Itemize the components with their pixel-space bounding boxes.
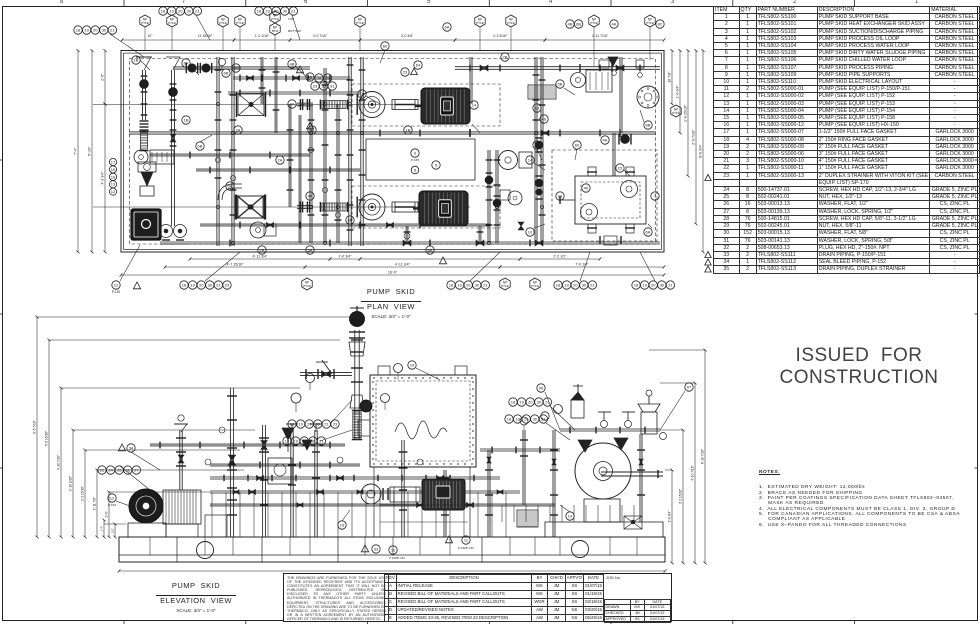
- drop1 globe valve: [141, 75, 148, 77]
- plan extra flange ticks verticals: [141, 103, 148, 105]
- svg-text:30: 30: [208, 283, 213, 288]
- svg-text:1B: 1B: [360, 92, 365, 97]
- svg-text:19: 19: [84, 28, 89, 33]
- svg-text:BTM: BTM: [272, 29, 279, 33]
- branch valve left of column: [300, 372, 352, 374]
- svg-text:18: 18: [511, 400, 516, 405]
- dark X valve near base right: [624, 516, 642, 529]
- svg-text:PTFE: PTFE: [507, 21, 515, 25]
- pump shaft bar: [601, 471, 663, 473]
- svg-text:13: 13: [111, 182, 116, 187]
- svg-text:2'-9 7/16": 2'-9 7/16": [692, 129, 696, 145]
- plan bottom dimension chains: [190, 258, 330, 260]
- plan right section extra fittings: [579, 64, 581, 72]
- svg-text:4'-0 7/16": 4'-0 7/16": [313, 34, 328, 38]
- mid deck manifold piping: [210, 490, 520, 492]
- pump P-152 dark coupling elevation: [129, 489, 163, 523]
- plan vertical x262: [260, 57, 262, 104]
- fin pack block elevation: [517, 510, 538, 527]
- valve stack x292: [290, 430, 292, 537]
- vertical header pipes center x350 x362: [348, 57, 350, 246]
- elevation bottom callouts near center: [445, 536, 452, 543]
- svg-text:21: 21: [668, 283, 673, 288]
- regulators dark left-mid: [282, 428, 294, 440]
- pump pedestal block: [545, 522, 663, 537]
- svg-text:PTFE: PTFE: [219, 21, 227, 25]
- svg-text:18: 18: [257, 9, 262, 14]
- svg-text:8C: 8C: [657, 22, 662, 27]
- electrical panel dark box: [131, 209, 161, 240]
- plan bottom balloons: [112, 281, 120, 289]
- plan pump baseplate white rect: [366, 139, 475, 180]
- NOTES: [759, 470, 969, 528]
- svg-text:30: 30: [537, 400, 542, 405]
- elevation base internal ribs: [149, 537, 151, 555]
- svg-text:19: 19: [293, 439, 298, 444]
- svg-text:11 15/16": 11 15/16": [198, 34, 213, 38]
- pump P-150 end view big circle: [575, 443, 631, 499]
- svg-text:P-155: P-155: [411, 158, 419, 162]
- ISSUED FOR CONSTRUCTION: [719, 345, 980, 388]
- dark valves on x536/542: [535, 141, 543, 149]
- svg-text:1'-0": 1'-0": [100, 526, 104, 532]
- svg-text:29: 29: [325, 76, 330, 81]
- svg-text:12: 12: [114, 283, 119, 288]
- svg-text:97: 97: [687, 385, 692, 390]
- drop1 pump at bottom: [134, 150, 148, 164]
- pump P-158 top right: [571, 73, 586, 88]
- svg-text:11: 11: [464, 538, 469, 543]
- svg-text:5'-0 15/16": 5'-0 15/16": [45, 431, 49, 446]
- svg-text:18: 18: [182, 283, 187, 288]
- valves on mid deck: [249, 489, 253, 494]
- svg-text:2A: 2A: [236, 128, 241, 133]
- pressure regulator station left: [138, 162, 156, 172]
- base lifting hole right: [572, 541, 589, 558]
- train1 coupling: [392, 100, 418, 110]
- svg-text:15: 15: [111, 167, 116, 172]
- svg-text:20: 20: [93, 28, 98, 33]
- plan balloon+tri in bay1: [401, 68, 409, 76]
- svg-text:PTFE: PTFE: [356, 21, 364, 25]
- svg-text:1'-11 7/16": 1'-11 7/16": [592, 34, 609, 38]
- base lifting hole left: [197, 542, 214, 559]
- plan balloon cluster mid: [315, 74, 323, 82]
- plan leader lines: [140, 60, 150, 70]
- svg-text:10 7/8": 10 7/8": [668, 71, 672, 83]
- vertical drop 1: funnel: [142, 70, 144, 120]
- svg-text:8B: 8B: [348, 218, 353, 223]
- finned cooler block: [528, 85, 556, 99]
- BOM warning triangles rows 33-35: [705, 251, 711, 257]
- svg-text:15: 15: [618, 166, 623, 171]
- svg-text:6'-5 7/16": 6'-5 7/16": [33, 420, 37, 433]
- vertical pipe x233: [231, 57, 233, 246]
- svg-text:2A: 2A: [278, 158, 283, 163]
- svg-text:31: 31: [330, 84, 335, 89]
- svg-text:3'-2 15/16": 3'-2 15/16": [679, 489, 683, 504]
- svg-text:21: 21: [590, 283, 595, 288]
- valve stack x316: [314, 430, 316, 537]
- vertical pipes right x471 x489 x497: [469, 57, 471, 104]
- svg-text:PTFE: PTFE: [672, 111, 680, 115]
- riser x403 elevation: [401, 440, 403, 537]
- gate valve above pump P-152: [237, 196, 263, 218]
- motor M1 plan: [421, 88, 470, 124]
- plan vertical drop x290: [288, 104, 290, 207]
- pump train 1: gate valve: [238, 94, 264, 116]
- elevation motor dark: [422, 479, 465, 510]
- plan mid-left horizontal pipe y155: [150, 153, 310, 155]
- svg-text:PTFE: PTFE: [501, 284, 509, 288]
- braided vertical hose on column: [353, 412, 361, 438]
- svg-text:20: 20: [302, 439, 307, 444]
- plan left dimension chain: [77, 51, 79, 253]
- svg-text:30: 30: [582, 283, 587, 288]
- svg-text:4'-11 3/4": 4'-11 3/4": [395, 263, 411, 267]
- svg-text:23: 23: [225, 283, 230, 288]
- svg-text:46: 46: [542, 117, 547, 122]
- svg-text:P-152: P-152: [112, 290, 121, 294]
- svg-text:34: 34: [129, 446, 134, 451]
- elevation bottom dim line: [119, 570, 665, 572]
- svg-text:3'-0 3/8": 3'-0 3/8": [401, 34, 414, 38]
- plan small fittings row: [215, 157, 220, 162]
- svg-text:19: 19: [519, 400, 524, 405]
- twin dark globe valves on branch: [188, 64, 196, 72]
- svg-text:2'-10 9/16": 2'-10 9/16": [69, 476, 73, 491]
- vertical pipe x621 top: [619, 57, 621, 133]
- top-left branch pipe y68: [173, 66, 310, 68]
- train2 pump volute: [359, 194, 385, 220]
- svg-text:1/2": 1/2": [111, 528, 115, 533]
- svg-text:18: 18: [161, 9, 166, 14]
- svg-text:11: 11: [391, 548, 396, 553]
- BOM warning triangle row 23: [705, 174, 711, 180]
- plan vertical drop x300: [298, 115, 300, 243]
- drop1 flange stack: [140, 120, 149, 122]
- plan hex flags top: [140, 15, 150, 27]
- plan warning triangles: [306, 122, 313, 129]
- plan right dimension chain: [671, 51, 673, 105]
- elevation small valves sprinkle: [233, 490, 236, 495]
- svg-text:6A: 6A: [445, 25, 450, 30]
- pump P-152 small plan: [250, 222, 266, 238]
- svg-text:21: 21: [110, 28, 115, 33]
- svg-text:15: 15: [340, 523, 345, 528]
- riser pipe left x232: [229, 430, 231, 537]
- svg-text:P-150/P-151: P-150/P-151: [458, 546, 474, 550]
- column wide flanges: [349, 331, 365, 333]
- svg-text:4'-7 15/16": 4'-7 15/16": [226, 263, 244, 267]
- svg-text:2'-2 1/2": 2'-2 1/2": [553, 255, 567, 259]
- riser x520 elevation: [522, 430, 524, 505]
- svg-text:30: 30: [660, 283, 665, 288]
- misc deck pipes right: [480, 448, 560, 450]
- svg-text:24: 24: [108, 468, 113, 473]
- svg-text:20: 20: [573, 283, 578, 288]
- svg-text:30: 30: [321, 84, 326, 89]
- svg-text:4'-3 3/16": 4'-3 3/16": [493, 34, 508, 38]
- svg-text:30: 30: [283, 9, 288, 14]
- svg-text:19: 19: [457, 283, 462, 288]
- svg-text:30: 30: [533, 417, 538, 422]
- svg-text:8A: 8A: [184, 61, 189, 66]
- svg-text:7'-0 1/4": 7'-0 1/4": [575, 263, 589, 267]
- plan motor bay 1 dashed enclosure: [352, 84, 500, 126]
- plan top balloon pairs right: [443, 23, 451, 31]
- center tall column pipe: [354, 330, 356, 440]
- svg-text:3A: 3A: [308, 248, 313, 253]
- plan small tees and elbows scatter: [216, 102, 219, 105]
- svg-text:26: 26: [126, 468, 131, 473]
- elevation balloons: [98, 466, 106, 474]
- suction stand: [205, 515, 227, 537]
- train2 flange pair: [299, 202, 301, 213]
- plan centerline train 1: [93, 104, 470, 106]
- upper horizontal line y445: [150, 443, 345, 445]
- svg-text:4'-10 7/16": 4'-10 7/16": [691, 465, 695, 480]
- svg-text:4A: 4A: [603, 138, 608, 143]
- elevation gauges sprinkle: [205, 459, 211, 465]
- svg-text:18: 18: [449, 283, 454, 288]
- svg-text:8A: 8A: [428, 248, 433, 253]
- HX panel bolts: [373, 377, 375, 379]
- svg-text:20: 20: [307, 422, 312, 427]
- HX panel elevation: [370, 375, 476, 467]
- svg-text:19: 19: [190, 283, 195, 288]
- svg-text:60: 60: [383, 44, 388, 49]
- svg-text:PTFE: PTFE: [476, 21, 484, 25]
- plan hex right of skid: [671, 105, 681, 117]
- svg-text:2'-0 15/16": 2'-0 15/16": [684, 104, 688, 122]
- svg-text:12: 12: [111, 189, 116, 194]
- svg-text:99: 99: [539, 386, 544, 391]
- train1 braided hose: [322, 101, 346, 109]
- valves on x489/x497: [485, 176, 493, 184]
- plan extra manifold y78: [233, 76, 350, 78]
- svg-text:7'-4": 7'-4": [74, 147, 78, 155]
- plan centerline train 2: [93, 206, 470, 208]
- svg-text:2'-2 15/16": 2'-2 15/16": [81, 486, 85, 501]
- relief valve dark top: [608, 57, 618, 66]
- svg-text:6B: 6B: [228, 184, 233, 189]
- air funnel assembly right: [641, 412, 657, 434]
- branch pipe y93: [228, 91, 360, 93]
- top ball valve dark: [350, 312, 365, 327]
- svg-text:PTFE: PTFE: [303, 284, 311, 288]
- elbow pipe bottom-left: [218, 184, 242, 200]
- right manifold y430: [560, 428, 660, 430]
- train1 pump volute: [359, 92, 385, 118]
- elevation base skid: [119, 537, 665, 562]
- sheet zone ticks left/right: [0, 159, 3, 161]
- riser x445 elevation: [443, 470, 445, 537]
- train1 flange pair: [299, 99, 301, 110]
- svg-text:21: 21: [195, 9, 200, 14]
- pump volute bottom: [584, 499, 620, 522]
- svg-text:13: 13: [535, 106, 540, 111]
- svg-text:18: 18: [285, 439, 290, 444]
- svg-text:20: 20: [178, 9, 183, 14]
- svg-text:PTFE: PTFE: [236, 21, 244, 25]
- elevation handrail-ish thin verticals under HX: [373, 467, 375, 537]
- train2 coupling: [392, 202, 418, 212]
- svg-text:22: 22: [100, 468, 105, 473]
- svg-text:14: 14: [528, 158, 533, 163]
- svg-text:19: 19: [298, 422, 303, 427]
- svg-text:33: 33: [374, 547, 379, 552]
- svg-text:4'-3 3/4": 4'-3 3/4": [101, 171, 105, 185]
- svg-text:19: 19: [265, 9, 270, 14]
- svg-text:16'-0": 16'-0": [388, 271, 398, 275]
- svg-text:12: 12: [110, 496, 115, 501]
- plan drain risers bottom: [405, 226, 407, 243]
- svg-text:6B: 6B: [576, 22, 581, 27]
- svg-text:18: 18: [507, 417, 512, 422]
- sheet zone ticks top/bottom: [123, 0, 125, 6]
- plan horizontal pipe y225: [200, 223, 490, 225]
- svg-text:30: 30: [311, 439, 316, 444]
- svg-text:20: 20: [524, 417, 529, 422]
- plan mid horizontal pipe y170: [196, 168, 360, 170]
- vertical pipe x325: [323, 68, 325, 243]
- round pump right bolt circle: [637, 86, 659, 108]
- svg-text:8B: 8B: [646, 123, 651, 128]
- svg-text:PTFE: PTFE: [646, 21, 654, 25]
- duplex strainer SP-170 plan: [575, 176, 646, 224]
- plan motor bay 2 dashed enclosure: [352, 186, 500, 228]
- svg-text:18: 18: [76, 28, 81, 33]
- svg-text:1'-11 7/8": 1'-11 7/8": [93, 497, 97, 510]
- T-handle globe valves right: [598, 411, 611, 413]
- svg-text:1B: 1B: [134, 58, 139, 63]
- svg-text:18: 18: [634, 283, 639, 288]
- svg-text:4'-10 7/16": 4'-10 7/16": [57, 455, 61, 470]
- PLAN VIEW label: [331, 287, 451, 319]
- plan top balloon row 1: [74, 26, 82, 34]
- vertical pipe x614: [612, 133, 614, 176]
- svg-text:PTFE: PTFE: [141, 21, 149, 25]
- svg-text:6B: 6B: [198, 144, 203, 149]
- svg-text:5B: 5B: [558, 82, 563, 87]
- svg-text:1'-6 3/4": 1'-6 3/4": [676, 84, 680, 98]
- elevation riser above pump P-152: [179, 430, 181, 490]
- svg-text:23: 23: [333, 422, 338, 427]
- elevation deck pipe y465: [210, 463, 360, 465]
- svg-text:23: 23: [313, 84, 318, 89]
- elevation extra flanges on risers: [227, 499, 237, 501]
- svg-text:19: 19: [564, 283, 569, 288]
- svg-text:PTFE: PTFE: [168, 21, 176, 25]
- deck framework comb: [211, 492, 213, 537]
- svg-text:6A: 6A: [646, 230, 651, 235]
- svg-text:18: 18: [290, 422, 295, 427]
- relief valve with spring right: [571, 400, 584, 418]
- svg-text:19: 19: [169, 9, 174, 14]
- plan balloon 60 above header: [381, 42, 389, 50]
- svg-text:27: 27: [134, 468, 139, 473]
- svg-text:14: 14: [472, 103, 477, 108]
- plan skid inner dashed perimeter: [130, 59, 656, 245]
- svg-text:1'-0 1/16": 1'-0 1/16": [255, 34, 270, 38]
- vertical pipe x311: [309, 104, 311, 243]
- svg-text:21: 21: [483, 283, 488, 288]
- svg-text:60: 60: [575, 143, 580, 148]
- elevation small dims bottom-left: [114, 524, 116, 537]
- svg-text:6B: 6B: [224, 71, 229, 76]
- svg-text:20: 20: [528, 400, 533, 405]
- svg-text:10": 10": [148, 34, 154, 38]
- svg-text:30: 30: [316, 422, 321, 427]
- title block: [283, 573, 672, 622]
- plan skid outer frame double line: [121, 51, 664, 253]
- svg-text:18: 18: [556, 283, 561, 288]
- gauge big circle center: [499, 151, 518, 170]
- valve on header y133: [621, 135, 630, 144]
- train2 braided hose: [322, 203, 346, 211]
- vertical pipe x338: [336, 104, 338, 243]
- svg-text:10: 10: [528, 230, 533, 235]
- svg-text:21: 21: [324, 422, 329, 427]
- elevation right dim chain: [671, 470, 673, 563]
- svg-text:PTFE: PTFE: [271, 17, 279, 21]
- svg-text:21: 21: [291, 9, 296, 14]
- svg-text:4A: 4A: [612, 22, 617, 27]
- svg-text:6'-10 7/16": 6'-10 7/16": [701, 449, 705, 464]
- dark angle wedges: [578, 440, 592, 452]
- svg-text:16: 16: [111, 174, 116, 179]
- svg-text:30: 30: [187, 9, 192, 14]
- svg-text:20: 20: [651, 283, 656, 288]
- svg-text:1B: 1B: [184, 118, 189, 123]
- svg-text:21: 21: [319, 439, 324, 444]
- drop1 braided hose vertical: [140, 133, 147, 149]
- svg-text:64: 64: [416, 63, 421, 68]
- svg-text:21: 21: [541, 417, 546, 422]
- instrument on branch: [218, 58, 225, 65]
- vertical pipes x536 x542: [534, 57, 536, 243]
- top right header pipe y68: [455, 66, 660, 68]
- plan scattered balloons: [132, 56, 140, 64]
- gauges left-mid: [291, 393, 301, 403]
- svg-text:P-152: P-152: [108, 503, 116, 507]
- bottom drain header: [160, 241, 660, 243]
- plan top balloon row 2: [159, 7, 167, 15]
- twin globe valves bottom-left: [160, 225, 173, 238]
- svg-text:14: 14: [568, 514, 573, 519]
- svg-text:17: 17: [111, 160, 116, 165]
- suction manifold pipe y478: [210, 476, 500, 478]
- panel gauge dark: [360, 400, 372, 412]
- drop2 valves: [170, 83, 177, 85]
- svg-text:4B: 4B: [568, 22, 573, 27]
- svg-text:7A: 7A: [260, 248, 265, 253]
- svg-text:13: 13: [558, 194, 563, 199]
- svg-text:PTFE: PTFE: [590, 21, 598, 25]
- svg-text:PTFE: PTFE: [531, 284, 539, 288]
- svg-text:30: 30: [475, 283, 480, 288]
- vertical pipe x218: [216, 57, 218, 246]
- svg-text:46: 46: [584, 186, 589, 191]
- svg-text:10: 10: [410, 363, 415, 368]
- plan strainer bay dashed enclosure: [552, 150, 657, 241]
- gauges right cluster: [554, 405, 563, 414]
- small pump bottom center: [508, 191, 522, 205]
- elevation pump2 volute + coupling + motor: [361, 484, 381, 504]
- plan long header line y131: [129, 131, 656, 133]
- svg-text:20: 20: [199, 283, 204, 288]
